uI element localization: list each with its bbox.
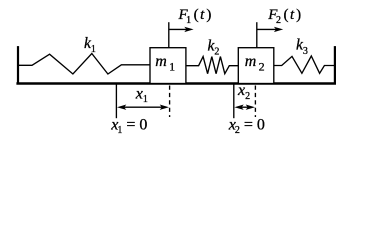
svg-text:x1 = 0: x1 = 0	[110, 116, 147, 136]
svg-text:x2 = 0: x2 = 0	[228, 116, 265, 136]
